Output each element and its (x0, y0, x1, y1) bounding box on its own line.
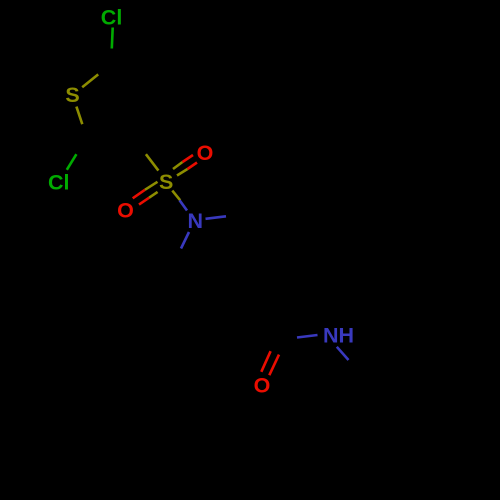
svg-text:Cl: Cl (48, 171, 70, 195)
svg-text:S: S (159, 170, 173, 194)
svg-text:N: N (188, 209, 204, 233)
svg-text:O: O (117, 198, 134, 222)
svg-text:O: O (197, 141, 214, 165)
svg-text:S: S (65, 83, 79, 107)
svg-text:Cl: Cl (101, 5, 123, 29)
svg-text:NH: NH (323, 323, 354, 347)
svg-text:O: O (254, 374, 271, 398)
